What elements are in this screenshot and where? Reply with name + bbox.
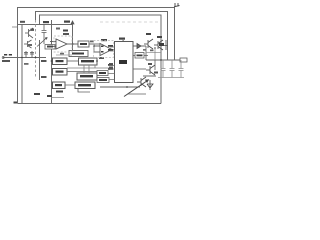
box 38 small stacked	[69, 51, 88, 57]
label left edge lower	[2, 60, 10, 62]
wire left bus	[21, 25, 23, 104]
wire outer border R1 top	[18, 8, 175, 104]
wire output horizontal	[146, 59, 186, 61]
capacitor C1 above input wire	[24, 51, 28, 58]
wire cluster to output line	[154, 49, 156, 60]
wire below op-amp U1	[56, 54, 72, 56]
wire inner border R3	[40, 15, 162, 104]
node corner mark bottom left	[14, 102, 18, 104]
label 54	[47, 95, 52, 97]
transistor Q2 left lower	[24, 40, 32, 48]
wire IC left pin stubs	[108, 47, 115, 80]
capacitor Co2	[170, 60, 175, 78]
wire H4 top-left horizontal	[18, 24, 73, 26]
small box P1 left of IC	[97, 71, 108, 76]
wire bottom border	[18, 103, 162, 105]
box B2	[53, 69, 68, 76]
node junction dots	[21, 57, 162, 88]
label 46 below op-amp	[99, 57, 104, 59]
wire cluster horizontal right	[163, 40, 168, 50]
wire IC right pin 3	[133, 68, 146, 70]
label 58	[146, 33, 151, 35]
wire ground rail outputs	[158, 77, 184, 79]
potentiometer arrow VR1	[37, 38, 47, 47]
label speck right of Q1	[31, 29, 35, 31]
label 56	[56, 91, 63, 93]
transistor Q3 cluster	[144, 39, 153, 49]
label cluster right of IC blobs	[148, 63, 152, 65]
wire under right cluster	[146, 52, 161, 54]
transistor Q6 bottom right cluster	[137, 77, 146, 87]
IC U3 box 42	[115, 42, 134, 83]
diode D2 cluster	[147, 80, 153, 90]
label inside resistor R2	[47, 46, 53, 48]
transistor Q4 cluster	[154, 40, 163, 50]
label speck below Q2	[28, 44, 32, 46]
capacitor C2 above input wire	[30, 51, 34, 58]
small box P2 left of IC	[97, 78, 109, 83]
label 32	[64, 21, 70, 23]
wire dashed enclosure top	[100, 21, 160, 23]
wire B3 to B6	[65, 84, 75, 86]
label 16	[24, 63, 29, 65]
label top mid 30	[63, 30, 68, 32]
op-amp U1	[50, 39, 78, 49]
transistor Q5 lower right cluster	[143, 65, 156, 76]
node dot op-amp input	[93, 45, 95, 47]
resistor box 36	[78, 41, 100, 47]
label 42	[119, 38, 125, 40]
wire stub B4 bottom	[84, 65, 95, 73]
resistor box 52	[133, 53, 148, 59]
label IC left pins	[108, 45, 113, 70]
node terminal input	[2, 57, 4, 59]
box B4 counter	[79, 58, 98, 65]
wire stubs op-amp U2 input network	[89, 44, 94, 52]
capacitor Co3	[179, 60, 184, 78]
wire dashed vertical	[35, 20, 37, 78]
label 60	[157, 36, 162, 38]
node input terminal	[4, 54, 12, 56]
wire B6 bottom	[78, 89, 90, 93]
label on verticals lower	[41, 76, 47, 78]
label 44	[101, 39, 107, 41]
wire inner border R2	[36, 12, 168, 61]
label marks under cluster	[150, 50, 154, 52]
label 34	[43, 21, 49, 23]
label pin marks left of IC lower	[109, 63, 113, 68]
capacitor C3 mid-left	[42, 25, 47, 45]
wire center bus vertical	[51, 20, 53, 104]
dashed enclosure around op-amp U2	[94, 41, 114, 58]
diode D1 IC right pin	[133, 44, 146, 49]
label IC internal	[119, 60, 127, 64]
wire B1-B4	[67, 60, 79, 62]
potentiometer arrow big diagonal	[124, 80, 149, 97]
label cluster dark blob	[159, 43, 164, 46]
wire input line	[3, 57, 46, 59]
wire bus mid horizontal 68	[67, 67, 110, 69]
label small mid top	[56, 28, 60, 30]
label on verticals upper	[41, 60, 47, 62]
box B3	[53, 82, 66, 89]
op-amp U2	[94, 44, 115, 56]
resistor R out	[180, 58, 187, 62]
dashed enclosure around op-amp U1	[54, 36, 72, 52]
power arrow supply	[71, 21, 74, 24]
capacitor Co1	[161, 60, 166, 78]
label mark below op-amp	[60, 53, 64, 55]
label lead line 42	[123, 40, 125, 42]
transistor Q1 left input	[25, 28, 33, 38]
box B1	[53, 58, 68, 65]
wire left inner vertical	[39, 40, 41, 80]
wire B2 out	[67, 71, 100, 73]
label 14 on H4	[20, 21, 25, 23]
node cluster dots	[154, 45, 162, 49]
wire cluster verticals right	[146, 46, 155, 70]
wire power vertical	[72, 21, 74, 53]
label small above op-amp2 wire	[90, 41, 94, 43]
label 10 top right	[174, 3, 180, 7]
wire y97 short	[52, 97, 65, 99]
resistor R2 box	[45, 45, 55, 50]
box B6	[75, 82, 95, 89]
box B5	[77, 73, 97, 80]
label op-amp U2 signs	[101, 46, 104, 53]
node J1	[72, 43, 74, 45]
label 50	[34, 93, 40, 95]
wire below IC	[100, 86, 140, 88]
wire short under diagonal	[128, 93, 146, 95]
wire stub outside left	[12, 26, 18, 28]
